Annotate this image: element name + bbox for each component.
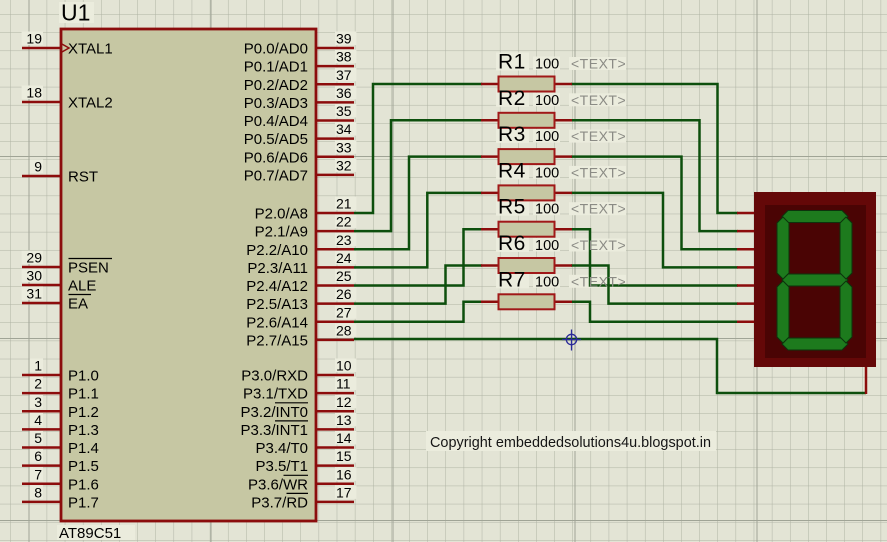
svg-text:P0.3/AD3: P0.3/AD3 xyxy=(244,95,308,112)
svg-text:100: 100 xyxy=(535,93,559,109)
svg-text:XTAL1: XTAL1 xyxy=(68,41,113,58)
R2 refdes label xyxy=(498,87,526,110)
svg-text:100: 100 xyxy=(535,165,559,181)
R6 refdes label xyxy=(498,232,526,255)
pin 23 P2.2/A10 (right) xyxy=(246,232,356,259)
display segment a xyxy=(782,211,848,223)
wire P2.0 (pin 21) to R1 xyxy=(354,84,482,213)
resistor R7 xyxy=(481,294,572,309)
svg-text:4: 4 xyxy=(34,412,42,428)
pin 27 P2.6/A14 (right) xyxy=(246,304,356,331)
svg-text:1: 1 xyxy=(34,358,42,374)
wire R1 to display segment pin 1 xyxy=(571,84,738,213)
wire R4 to display segment pin 4 xyxy=(571,193,738,268)
R1 refdes label xyxy=(498,51,526,74)
svg-text:P3.2/INT0: P3.2/INT0 xyxy=(240,404,308,421)
pin 38 P0.1/AD1 (right) xyxy=(244,49,357,76)
svg-text:P1.3: P1.3 xyxy=(68,422,99,439)
wire P2.6 (pin 27) to R7 xyxy=(354,302,482,322)
wire P2.3 (pin 24) to R4 xyxy=(354,193,482,268)
pin 21 P2.0/A8 (right) xyxy=(255,196,357,223)
svg-text:23: 23 xyxy=(336,232,352,248)
display pin stub 4 xyxy=(737,266,755,269)
clock input chevron on XTAL1 xyxy=(61,44,69,53)
svg-text:P3.1/TXD: P3.1/TXD xyxy=(243,386,308,403)
pin 1 P1.0 (left) xyxy=(22,358,99,385)
display pin stub 1 xyxy=(737,212,755,215)
svg-text:39: 39 xyxy=(336,31,352,47)
svg-text:R7: R7 xyxy=(498,268,526,291)
display segment c xyxy=(840,281,852,343)
svg-text:5: 5 xyxy=(34,430,42,446)
R6 &lt;TEXT&gt; placeholder xyxy=(571,237,626,253)
pin 11 P3.1/TXD (right) xyxy=(243,376,356,403)
label background boxes xyxy=(496,53,626,289)
svg-text:P3.3/INT1: P3.3/INT1 xyxy=(240,422,308,439)
label U1 xyxy=(59,0,94,26)
svg-text:PSEN: PSEN xyxy=(68,260,109,277)
wire P2.7 (pin 28) to display common xyxy=(354,339,866,393)
svg-text:<TEXT>: <TEXT> xyxy=(571,273,626,289)
svg-text:21: 21 xyxy=(336,196,352,212)
svg-text:<TEXT>: <TEXT> xyxy=(571,56,626,72)
svg-text:34: 34 xyxy=(336,121,352,137)
svg-text:6: 6 xyxy=(34,448,42,464)
pin 29 PSEN (left) xyxy=(22,250,112,277)
pin 9 RST (left) xyxy=(22,159,98,186)
display segment e xyxy=(777,281,789,343)
svg-text:16: 16 xyxy=(336,466,352,482)
label AT89C51 xyxy=(57,525,135,542)
svg-text:14: 14 xyxy=(336,430,352,446)
svg-text:26: 26 xyxy=(336,286,352,302)
svg-text:100: 100 xyxy=(535,238,559,254)
display segment b xyxy=(840,217,852,279)
svg-text:100: 100 xyxy=(535,274,559,290)
R1 &lt;TEXT&gt; placeholder xyxy=(571,56,626,72)
svg-text:36: 36 xyxy=(336,85,352,101)
display pin stub 6 xyxy=(737,302,755,305)
R5 refdes label xyxy=(498,196,526,219)
svg-text:P1.7: P1.7 xyxy=(68,494,99,511)
svg-text:P2.3/A11: P2.3/A11 xyxy=(247,260,308,277)
7-segment display body xyxy=(754,192,876,367)
wire P2.4 (pin 25) to R5 xyxy=(354,229,482,285)
pin 5 P1.4 (left) xyxy=(22,430,99,457)
svg-text:32: 32 xyxy=(336,157,352,173)
svg-text:P2.6/A14: P2.6/A14 xyxy=(246,314,308,331)
svg-text:7: 7 xyxy=(34,466,42,482)
svg-text:9: 9 xyxy=(34,159,42,175)
wire P2.5 (pin 26) to R6 xyxy=(354,266,482,304)
R1 value label 100 xyxy=(535,57,559,73)
pin 12 P3.2/INT0 (right) xyxy=(240,394,356,421)
svg-text:P0.5/AD5: P0.5/AD5 xyxy=(244,131,308,148)
svg-text:29: 29 xyxy=(26,250,42,266)
svg-text:2: 2 xyxy=(34,376,42,392)
R3 &lt;TEXT&gt; placeholder xyxy=(571,128,626,144)
R3 value label 100 xyxy=(535,129,559,145)
svg-text:R2: R2 xyxy=(498,87,526,110)
svg-text:P1.1: P1.1 xyxy=(68,386,99,403)
svg-text:10: 10 xyxy=(336,358,352,374)
svg-text:100: 100 xyxy=(535,202,559,218)
svg-text:3: 3 xyxy=(34,394,42,410)
pin 7 P1.6 (left) xyxy=(22,466,99,493)
resistor R3 xyxy=(481,149,572,164)
svg-text:P0.0/AD0: P0.0/AD0 xyxy=(244,41,308,58)
pin 26 P2.5/A13 (right) xyxy=(246,286,356,313)
svg-text:R4: R4 xyxy=(498,159,526,182)
pin 15 P3.5/T1 (right) xyxy=(255,448,356,475)
svg-text:XTAL2: XTAL2 xyxy=(68,95,113,112)
R2 &lt;TEXT&gt; placeholder xyxy=(571,92,626,108)
pin 14 P3.4/T0 (right) xyxy=(255,430,356,457)
pin 24 P2.3/A11 (right) xyxy=(247,250,356,277)
resistor R2 xyxy=(481,113,572,128)
pin 32 P0.7/AD7 (right) xyxy=(244,157,357,184)
svg-text:Copyright embeddedsolutions4u.: Copyright embeddedsolutions4u.blogspot.i… xyxy=(430,434,711,451)
resistor R5 xyxy=(481,222,572,237)
svg-text:P3.0/RXD: P3.0/RXD xyxy=(241,368,308,385)
pin 28 P2.7/A15 (right) xyxy=(246,322,356,349)
svg-text:ALE: ALE xyxy=(68,278,96,295)
R5 &lt;TEXT&gt; placeholder xyxy=(571,201,626,217)
svg-text:R5: R5 xyxy=(498,196,526,219)
pin 33 P0.6/AD6 (right) xyxy=(244,139,357,166)
svg-text:P0.2/AD2: P0.2/AD2 xyxy=(244,77,308,94)
svg-text:28: 28 xyxy=(336,322,352,338)
svg-text:P1.6: P1.6 xyxy=(68,476,99,493)
pin 35 P0.4/AD4 (right) xyxy=(244,103,357,130)
pin 19 XTAL1 (left) xyxy=(22,31,113,58)
svg-text:P1.2: P1.2 xyxy=(68,404,99,421)
origin marker (blue crosshair) xyxy=(562,330,581,351)
svg-text:P0.6/AD6: P0.6/AD6 xyxy=(244,149,308,166)
R2 value label 100 xyxy=(535,93,559,109)
svg-text:P2.2/A10: P2.2/A10 xyxy=(246,242,308,259)
wire R3 to display segment pin 3 xyxy=(571,157,738,250)
svg-text:P2.5/A13: P2.5/A13 xyxy=(246,296,308,313)
wire R2 to display segment pin 2 xyxy=(571,120,738,231)
pin 36 P0.3/AD3 (right) xyxy=(244,85,357,112)
pin 13 P3.3/INT1 (right) xyxy=(240,412,356,439)
R6 value label 100 xyxy=(535,238,559,254)
svg-text:<TEXT>: <TEXT> xyxy=(571,237,626,253)
pin 22 P2.1/A9 (right) xyxy=(255,214,357,241)
R4 refdes label xyxy=(498,159,526,182)
resistor R4 xyxy=(481,185,572,200)
svg-text:P1.4: P1.4 xyxy=(68,440,99,457)
svg-text:<TEXT>: <TEXT> xyxy=(571,201,626,217)
svg-text:24: 24 xyxy=(336,250,352,266)
svg-text:30: 30 xyxy=(26,268,42,284)
wire P2.1 (pin 22) to R2 xyxy=(354,120,482,231)
svg-text:P0.7/AD7: P0.7/AD7 xyxy=(244,167,308,184)
svg-text:13: 13 xyxy=(336,412,352,428)
svg-text:P2.7/A15: P2.7/A15 xyxy=(246,332,308,349)
svg-text:22: 22 xyxy=(336,214,352,230)
pin 8 P1.7 (left) xyxy=(22,484,99,511)
svg-text:R6: R6 xyxy=(498,232,526,255)
display segment f xyxy=(777,217,789,279)
svg-text:38: 38 xyxy=(336,49,352,65)
svg-text:27: 27 xyxy=(336,304,352,320)
display segment d xyxy=(782,338,848,350)
pin 17 P3.7/RD (right) xyxy=(251,484,356,511)
svg-text:P3.4/T0: P3.4/T0 xyxy=(255,440,308,457)
svg-text:<TEXT>: <TEXT> xyxy=(571,92,626,108)
pin 31 EA (left) xyxy=(22,286,91,313)
svg-text:P1.0: P1.0 xyxy=(68,368,99,385)
svg-text:AT89C51: AT89C51 xyxy=(59,525,121,542)
svg-text:100: 100 xyxy=(535,129,559,145)
pin 37 P0.2/AD2 (right) xyxy=(244,67,357,94)
display pin stub 3 xyxy=(737,248,755,251)
svg-text:EA: EA xyxy=(68,296,88,313)
pin 4 P1.3 (left) xyxy=(22,412,99,439)
svg-text:19: 19 xyxy=(26,31,42,47)
svg-text:P0.4/AD4: P0.4/AD4 xyxy=(244,113,308,130)
svg-text:P2.0/A8: P2.0/A8 xyxy=(255,206,308,223)
svg-text:35: 35 xyxy=(336,103,352,119)
svg-text:P3.6/WR: P3.6/WR xyxy=(248,476,308,493)
wire R6 to display segment pin 6 xyxy=(571,266,738,304)
svg-text:11: 11 xyxy=(336,376,351,392)
svg-text:<TEXT>: <TEXT> xyxy=(571,164,626,180)
pin 18 XTAL2 (left) xyxy=(22,85,113,112)
resistor R1 xyxy=(481,77,572,92)
pin 25 P2.4/A12 (right) xyxy=(246,268,356,295)
pin 2 P1.1 (left) xyxy=(22,376,99,403)
display common pin stub xyxy=(865,366,868,394)
svg-text:17: 17 xyxy=(336,484,352,500)
svg-text:15: 15 xyxy=(336,448,352,464)
R7 refdes label xyxy=(498,268,526,291)
svg-text:<TEXT>: <TEXT> xyxy=(571,128,626,144)
svg-text:100: 100 xyxy=(535,57,559,73)
resistor R6 xyxy=(481,258,572,273)
R5 value label 100 xyxy=(535,202,559,218)
display pin stub 7 xyxy=(737,321,755,324)
pin 30 ALE (left) xyxy=(22,268,97,295)
svg-text:RST: RST xyxy=(68,169,98,186)
wire R5 to display segment pin 5 xyxy=(571,229,738,285)
svg-text:P1.5: P1.5 xyxy=(68,458,99,475)
R4 &lt;TEXT&gt; placeholder xyxy=(571,164,626,180)
svg-text:P2.1/A9: P2.1/A9 xyxy=(255,224,308,241)
svg-text:R3: R3 xyxy=(498,123,526,146)
pin 10 P3.0/RXD (right) xyxy=(241,358,356,385)
svg-text:U1: U1 xyxy=(61,0,90,26)
pin 3 P1.2 (left) xyxy=(22,394,99,421)
svg-text:R1: R1 xyxy=(498,51,526,74)
wire P2.2 (pin 23) to R3 xyxy=(354,157,482,250)
wire R7 to display segment pin 7 xyxy=(571,302,738,322)
R7 value label 100 xyxy=(535,274,559,290)
display segment g xyxy=(782,274,848,286)
R4 value label 100 xyxy=(535,165,559,181)
IC U1 AT89C51 body xyxy=(61,29,316,521)
svg-text:25: 25 xyxy=(336,268,352,284)
svg-text:8: 8 xyxy=(34,484,42,500)
svg-text:12: 12 xyxy=(336,394,352,410)
pin 34 P0.5/AD5 (right) xyxy=(244,121,357,148)
R7 &lt;TEXT&gt; placeholder xyxy=(571,273,626,289)
svg-text:31: 31 xyxy=(26,286,42,302)
svg-text:P0.1/AD1: P0.1/AD1 xyxy=(244,59,308,76)
pin 6 P1.5 (left) xyxy=(22,448,99,475)
R3 refdes label xyxy=(498,123,526,146)
svg-text:33: 33 xyxy=(336,139,352,155)
svg-text:P3.7/RD: P3.7/RD xyxy=(251,494,308,511)
display pin stub 2 xyxy=(737,230,755,233)
pin 39 P0.0/AD0 (right) xyxy=(244,31,357,58)
svg-text:P3.5/T1: P3.5/T1 xyxy=(255,458,308,475)
svg-text:P2.4/A12: P2.4/A12 xyxy=(246,278,308,295)
pin 16 P3.6/WR (right) xyxy=(248,466,356,493)
copyright text xyxy=(426,431,716,451)
display pin stub 5 xyxy=(737,284,755,287)
svg-text:37: 37 xyxy=(336,67,352,83)
svg-text:18: 18 xyxy=(26,85,42,101)
